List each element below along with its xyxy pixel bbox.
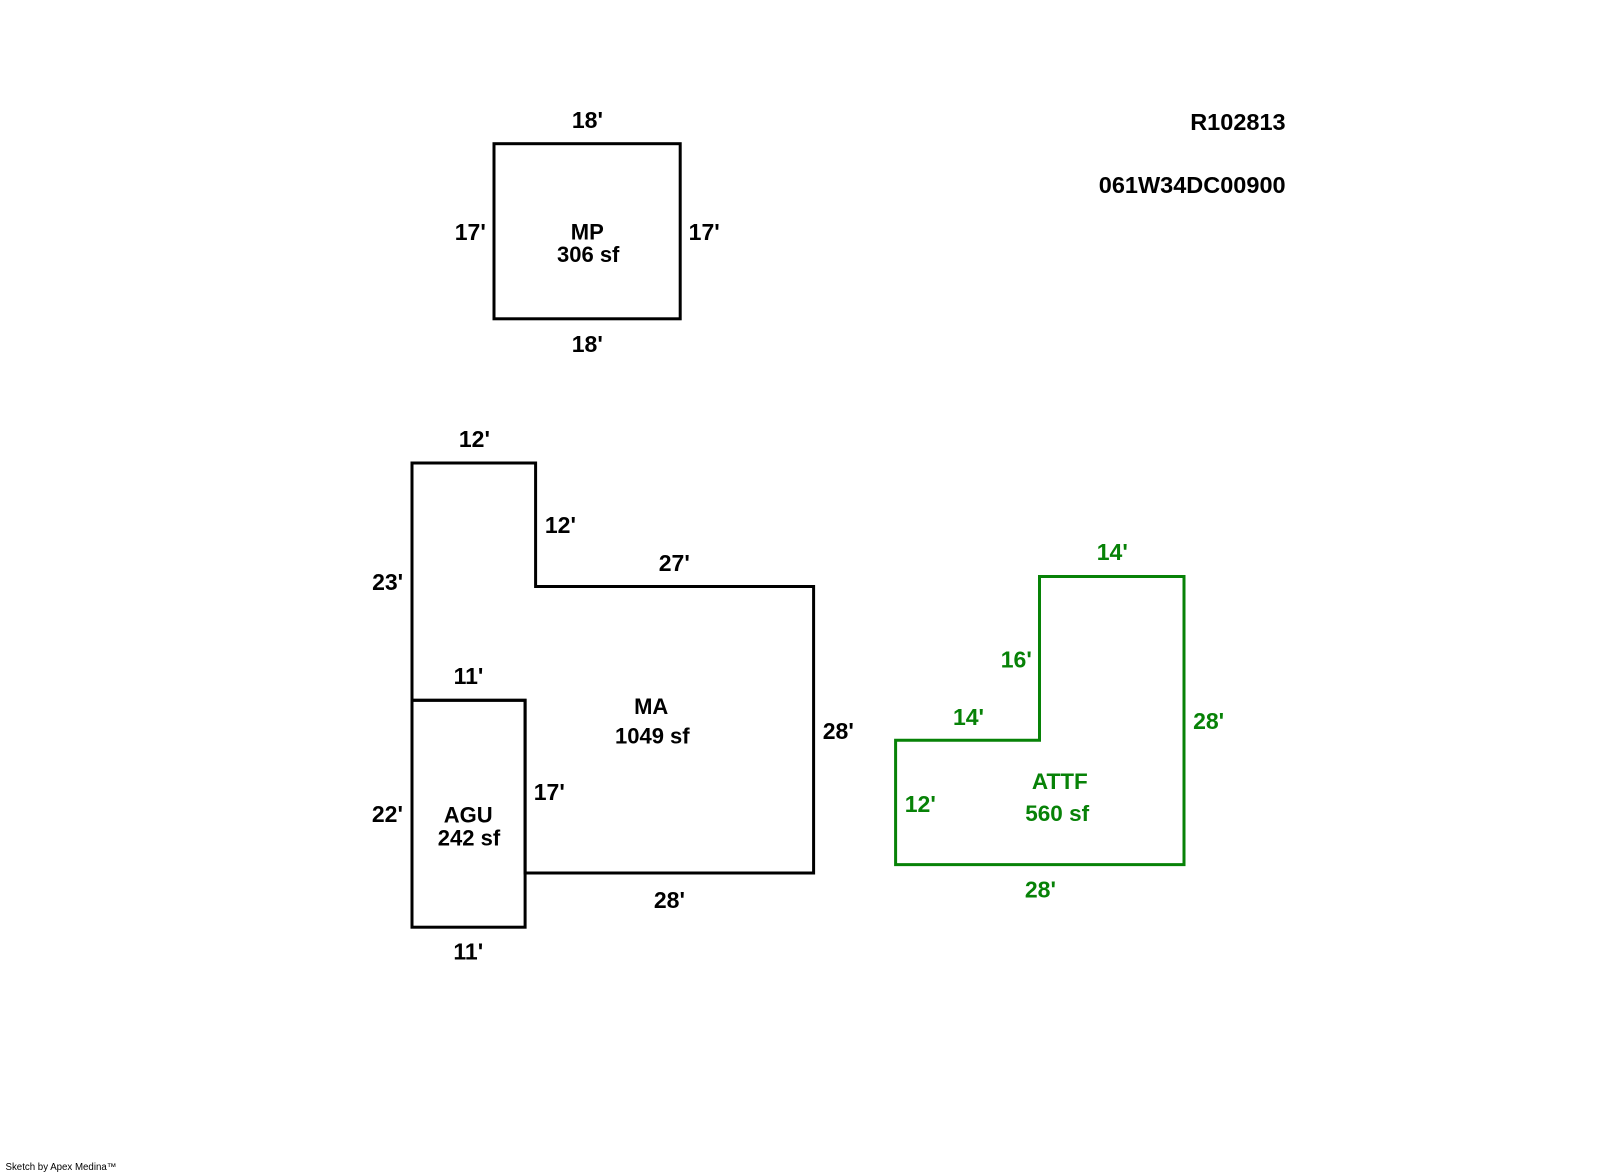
svg-text:27': 27' bbox=[659, 550, 690, 576]
svg-text:22': 22' bbox=[372, 801, 403, 827]
AGU outline bbox=[412, 700, 525, 927]
svg-text:28': 28' bbox=[1025, 876, 1056, 902]
svg-text:306 sf: 306 sf bbox=[557, 242, 620, 267]
svg-text:MP: MP bbox=[571, 219, 604, 244]
svg-text:1049 sf: 1049 sf bbox=[615, 723, 690, 748]
svg-text:17': 17' bbox=[689, 219, 720, 245]
svg-text:18': 18' bbox=[572, 107, 603, 133]
svg-text:242 sf: 242 sf bbox=[438, 825, 501, 850]
svg-text:23': 23' bbox=[372, 569, 403, 595]
svg-text:R102813: R102813 bbox=[1190, 109, 1285, 135]
svg-text:11': 11' bbox=[454, 663, 484, 689]
svg-text:14': 14' bbox=[1097, 539, 1128, 565]
svg-text:28': 28' bbox=[1193, 708, 1224, 734]
svg-text:12': 12' bbox=[545, 512, 576, 538]
ATTF outline bbox=[896, 577, 1184, 865]
svg-text:MA: MA bbox=[634, 694, 668, 719]
svg-text:28': 28' bbox=[823, 718, 854, 744]
svg-text:16': 16' bbox=[1001, 646, 1032, 672]
svg-text:Sketch by Apex Medina™: Sketch by Apex Medina™ bbox=[6, 1162, 117, 1173]
MA outline bbox=[412, 463, 814, 873]
svg-text:ATTF: ATTF bbox=[1032, 769, 1088, 794]
svg-text:AGU: AGU bbox=[444, 802, 493, 827]
svg-text:061W34DC00900: 061W34DC00900 bbox=[1099, 172, 1286, 198]
svg-text:11': 11' bbox=[453, 938, 483, 964]
MP outline bbox=[494, 144, 680, 319]
svg-text:28': 28' bbox=[654, 887, 685, 913]
svg-text:17': 17' bbox=[455, 219, 486, 245]
svg-text:12': 12' bbox=[459, 426, 490, 452]
svg-text:12': 12' bbox=[905, 791, 936, 817]
svg-text:17': 17' bbox=[534, 779, 565, 805]
svg-text:560 sf: 560 sf bbox=[1025, 801, 1089, 826]
svg-text:18': 18' bbox=[572, 331, 603, 357]
svg-text:14': 14' bbox=[953, 704, 984, 730]
